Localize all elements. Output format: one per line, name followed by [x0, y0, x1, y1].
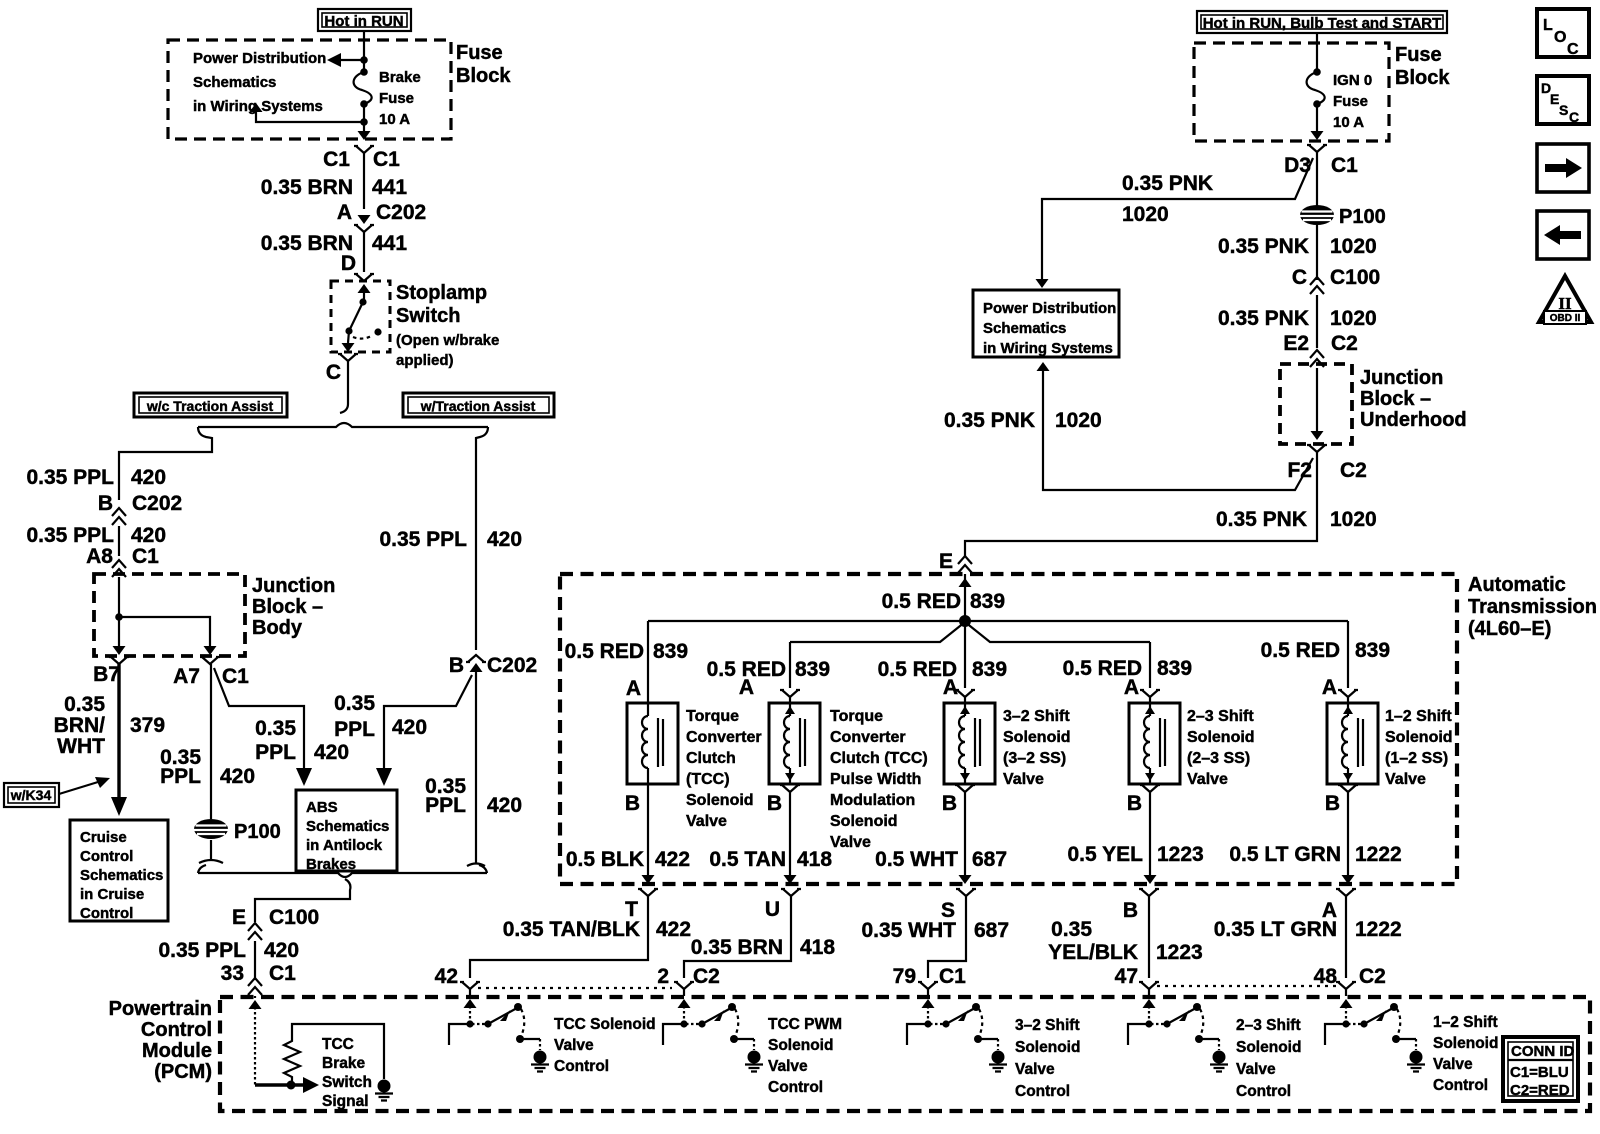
wire 379 BRN/WHT thick down to cruise control	[117, 664, 120, 800]
svg-text:Solenoid: Solenoid	[1015, 1039, 1080, 1056]
connector C1 C1	[354, 146, 374, 153]
pin A wire 1222	[1336, 889, 1356, 896]
svg-text:1222: 1222	[1355, 918, 1402, 941]
box w/K34	[4, 783, 59, 807]
svg-text:C: C	[1292, 266, 1307, 289]
svg-text:in Cruise: in Cruise	[80, 886, 144, 903]
junction block - underhood dashed box	[1280, 364, 1352, 444]
svg-text:PPL: PPL	[425, 794, 466, 817]
svg-text:Fuse: Fuse	[456, 42, 503, 64]
box w/c Traction Assist	[134, 393, 287, 417]
wire A7 down to P100	[210, 664, 212, 819]
connector E C100	[248, 923, 262, 940]
wire drop to 3-2 solenoid	[964, 621, 966, 688]
svg-text:3–2 Shift: 3–2 Shift	[1003, 708, 1070, 725]
svg-text:Solenoid: Solenoid	[768, 1037, 833, 1054]
node: junction dot to power distribution arrow	[360, 56, 368, 64]
connector P100 (right)	[1300, 205, 1334, 225]
svg-text:1020: 1020	[1330, 307, 1377, 330]
svg-text:0.5 TAN: 0.5 TAN	[709, 848, 786, 871]
svg-text:Pulse Width: Pulse Width	[830, 771, 921, 788]
wire diagonal to power distribution return	[1043, 371, 1313, 490]
svg-text:Schematics: Schematics	[193, 74, 276, 91]
svg-text:1–2 Shift: 1–2 Shift	[1433, 1014, 1498, 1031]
svg-text:0.5 RED: 0.5 RED	[1261, 639, 1340, 662]
svg-text:Valve: Valve	[1385, 771, 1426, 788]
svg-text:(3–2 SS): (3–2 SS)	[1003, 750, 1066, 767]
svg-text:42: 42	[435, 965, 458, 988]
svg-text:Solenoid: Solenoid	[1385, 729, 1453, 746]
wire drop to TCC PWM solenoid	[789, 642, 791, 688]
svg-text:420: 420	[314, 741, 349, 764]
solenoid TCC PWM	[769, 703, 820, 784]
svg-text:E: E	[939, 550, 953, 573]
svg-text:Block: Block	[456, 65, 511, 87]
svg-text:O: O	[1554, 29, 1566, 46]
svg-text:0.35: 0.35	[64, 693, 105, 716]
svg-text:420: 420	[220, 765, 255, 788]
wire drop to 1-2 solenoid	[1347, 621, 1349, 688]
traction option split bus	[198, 423, 488, 427]
svg-text:10 A: 10 A	[379, 111, 410, 128]
switch 3-2 shift solenoid valve control	[907, 999, 1007, 1072]
wire arrow to Power Distribution (left)	[340, 59, 364, 61]
box w/Traction Assist	[403, 393, 554, 417]
wire through junction block	[1316, 368, 1318, 431]
svg-text:839: 839	[970, 590, 1005, 613]
svg-text:B: B	[942, 792, 957, 815]
svg-text:C1: C1	[1331, 154, 1358, 177]
svg-text:A: A	[1124, 676, 1139, 699]
svg-text:Switch: Switch	[396, 305, 460, 327]
svg-text:Solenoid: Solenoid	[1236, 1039, 1301, 1056]
svg-text:C2=RED: C2=RED	[1510, 1082, 1570, 1099]
svg-text:C1=BLU: C1=BLU	[1510, 1064, 1569, 1081]
svg-text:422: 422	[655, 848, 690, 871]
svg-text:(4L60–E): (4L60–E)	[1468, 618, 1551, 640]
wire drop to 2-3 solenoid	[1149, 642, 1151, 688]
svg-text:C100: C100	[269, 906, 319, 929]
svg-text:C2: C2	[693, 965, 720, 988]
fuse block (left) dashed box	[168, 40, 451, 139]
svg-text:U: U	[765, 898, 780, 921]
svg-text:0.5 WHT: 0.5 WHT	[875, 848, 958, 871]
ground (resistor pull-up)	[375, 1080, 393, 1101]
wire 1020 PNK	[1316, 225, 1318, 280]
svg-text:0.5 YEL: 0.5 YEL	[1068, 843, 1144, 866]
svg-text:Module: Module	[142, 1040, 212, 1062]
svg-text:Power Distribution: Power Distribution	[983, 300, 1116, 317]
right traction branch: connector B C202	[466, 655, 486, 672]
wire branch to up arrow (power distribution return)	[256, 112, 364, 122]
svg-text:A: A	[739, 676, 754, 699]
svg-text:Block –: Block –	[1360, 388, 1431, 410]
switch 1-2 shift solenoid valve control	[1325, 999, 1425, 1072]
svg-text:0.35 PNK: 0.35 PNK	[1218, 235, 1309, 258]
connector D3 C1	[1307, 145, 1327, 152]
junction block - body dashed box	[94, 574, 245, 656]
wire 420 PPL to PCM pin 33	[254, 941, 256, 980]
svg-text:A: A	[626, 677, 641, 700]
svg-text:0.35 PNK: 0.35 PNK	[1218, 307, 1309, 330]
svg-text:A7: A7	[173, 665, 200, 688]
svg-text:0.5 RED: 0.5 RED	[565, 640, 644, 663]
svg-text:(TCC): (TCC)	[686, 771, 730, 788]
svg-text:Control: Control	[1015, 1083, 1070, 1100]
svg-text:Valve: Valve	[554, 1037, 594, 1054]
node inside junction block	[115, 613, 123, 621]
svg-text:0.35: 0.35	[1051, 918, 1092, 941]
svg-text:Fuse: Fuse	[1395, 44, 1442, 66]
svg-text:L: L	[1543, 17, 1553, 34]
svg-text:w/c Traction Assist: w/c Traction Assist	[146, 398, 274, 414]
icon forward arrow	[1537, 144, 1589, 192]
svg-text:C2: C2	[1331, 332, 1358, 355]
svg-text:2–3 Shift: 2–3 Shift	[1236, 1017, 1301, 1034]
box Cruise Control Schematics in Cruise Control	[70, 820, 168, 921]
svg-text:Control: Control	[1236, 1083, 1291, 1100]
svg-text:839: 839	[1157, 657, 1192, 680]
pin T wire 422	[638, 889, 658, 896]
wire F2 down and across to E	[965, 452, 1317, 556]
svg-text:B: B	[767, 792, 782, 815]
wire from C down to split	[340, 361, 348, 413]
solenoid 3-2 shift	[944, 703, 995, 784]
svg-text:B: B	[1127, 792, 1142, 815]
collector bus to C100	[198, 865, 206, 873]
svg-text:E2: E2	[1283, 332, 1309, 355]
svg-text:0.35 PPL: 0.35 PPL	[26, 524, 114, 547]
svg-text:687: 687	[972, 848, 1007, 871]
svg-text:Automatic: Automatic	[1468, 574, 1566, 596]
svg-text:Solenoid: Solenoid	[686, 792, 754, 809]
svg-text:839: 839	[972, 658, 1007, 681]
svg-text:in Wiring Systems: in Wiring Systems	[983, 340, 1113, 357]
svg-text:Valve: Valve	[1433, 1056, 1473, 1073]
svg-text:Control: Control	[80, 848, 133, 865]
svg-text:1020: 1020	[1330, 235, 1377, 258]
svg-text:C100: C100	[1330, 266, 1380, 289]
svg-text:Valve: Valve	[830, 834, 871, 851]
svg-text:0.35 TAN/BLK: 0.35 TAN/BLK	[503, 918, 640, 941]
svg-text:0.35 PPL: 0.35 PPL	[379, 528, 467, 551]
wire branch diagonal to ABS arrow 1	[214, 668, 304, 772]
svg-text:C1: C1	[373, 148, 400, 171]
pin B7	[109, 657, 129, 664]
svg-text:1223: 1223	[1157, 843, 1204, 866]
svg-text:C: C	[1569, 109, 1579, 125]
svg-text:PPL: PPL	[255, 741, 296, 764]
wire diagonal branch to PNK 1020 left run	[1042, 158, 1313, 279]
svg-text:Hot in RUN: Hot in RUN	[324, 13, 403, 30]
svg-text:Valve: Valve	[1003, 771, 1044, 788]
svg-text:(2–3 SS): (2–3 SS)	[1187, 750, 1250, 767]
svg-text:B: B	[98, 492, 113, 515]
fuse Brake Fuse 10 A	[360, 68, 368, 76]
svg-text:0.35 WHT: 0.35 WHT	[861, 919, 956, 942]
svg-text:Stoplamp: Stoplamp	[396, 282, 487, 304]
svg-text:687: 687	[974, 919, 1009, 942]
svg-text:B: B	[449, 654, 464, 677]
svg-text:0.35: 0.35	[334, 692, 375, 715]
svg-text:C: C	[1567, 41, 1579, 58]
svg-text:441: 441	[372, 176, 407, 199]
wire 441 BRN segment	[363, 153, 365, 209]
svg-text:Converter: Converter	[830, 729, 906, 746]
svg-text:Cruise: Cruise	[80, 829, 127, 846]
svg-text:47: 47	[1115, 965, 1138, 988]
svg-text:P100: P100	[1339, 206, 1386, 228]
CONN ID legend box	[1503, 1037, 1578, 1101]
svg-text:in Antilock: in Antilock	[306, 837, 383, 854]
svg-text:Junction: Junction	[1360, 367, 1443, 389]
svg-text:Valve: Valve	[768, 1058, 808, 1075]
wire feeder bus line upper	[648, 620, 1348, 622]
svg-text:1222: 1222	[1355, 843, 1402, 866]
svg-text:0.35 PPL: 0.35 PPL	[26, 466, 114, 489]
svg-text:79: 79	[893, 965, 916, 988]
svg-text:F2: F2	[1287, 459, 1312, 482]
svg-text:0.35 BRN: 0.35 BRN	[261, 232, 353, 255]
wire branch to A7	[119, 617, 210, 646]
svg-text:BRN/: BRN/	[54, 714, 105, 737]
svg-text:Valve: Valve	[1236, 1061, 1276, 1078]
svg-text:Control: Control	[554, 1058, 609, 1075]
svg-text:B: B	[625, 792, 640, 815]
svg-text:Clutch (TCC): Clutch (TCC)	[830, 750, 928, 767]
wire branch diagonal from C202 to ABS arrow 2	[384, 675, 472, 772]
svg-text:C202: C202	[132, 492, 182, 515]
svg-text:P100: P100	[234, 821, 281, 843]
svg-text:PPL: PPL	[160, 765, 201, 788]
banner Hot in RUN	[318, 9, 411, 31]
svg-text:C2: C2	[1359, 965, 1386, 988]
svg-text:D: D	[341, 252, 356, 275]
svg-text:Power Distribution: Power Distribution	[193, 50, 326, 67]
svg-text:Torque: Torque	[686, 708, 739, 725]
svg-text:Torque: Torque	[830, 708, 883, 725]
svg-text:Solenoid: Solenoid	[830, 813, 898, 830]
svg-text:0.35 BRN: 0.35 BRN	[691, 936, 783, 959]
svg-text:E: E	[232, 906, 246, 929]
svg-text:TCC: TCC	[322, 1036, 354, 1053]
box ABS Schematics in Antilock Brakes	[296, 790, 397, 871]
pin A7 C1	[200, 657, 220, 664]
svg-text:Solenoid: Solenoid	[1187, 729, 1255, 746]
squiggle from bus down to E C100	[255, 879, 350, 922]
svg-text:Fuse: Fuse	[379, 90, 414, 107]
svg-text:422: 422	[656, 918, 691, 941]
svg-text:B7: B7	[93, 663, 120, 686]
TCC brake switch signal circuit	[249, 1000, 262, 1009]
icon DESC	[1537, 76, 1589, 125]
svg-text:Schematics: Schematics	[983, 320, 1066, 337]
resistor TCC brake switch	[284, 1024, 384, 1081]
svg-text:Switch: Switch	[322, 1074, 372, 1091]
svg-text:w/Traction Assist: w/Traction Assist	[420, 398, 536, 414]
pin C below stoplamp switch	[338, 354, 358, 361]
svg-text:applied): applied)	[396, 352, 454, 369]
svg-text:B: B	[1325, 792, 1340, 815]
svg-text:Valve: Valve	[686, 813, 727, 830]
svg-text:0.5 LT GRN: 0.5 LT GRN	[1229, 843, 1341, 866]
svg-text:Valve: Valve	[1187, 771, 1228, 788]
wire feeder bus line lower with diagonals	[790, 622, 1150, 642]
svg-text:OBD II: OBD II	[1550, 313, 1581, 324]
svg-text:Control: Control	[80, 905, 133, 922]
wire drop to TCC solenoid	[647, 621, 649, 703]
wire below fuse	[363, 104, 365, 122]
svg-text:Transmission: Transmission	[1468, 596, 1597, 618]
svg-text:420: 420	[264, 939, 299, 962]
svg-text:Powertrain: Powertrain	[109, 998, 212, 1020]
svg-text:B: B	[1123, 899, 1138, 922]
solenoid 1-2 shift	[1327, 703, 1378, 784]
pin 33 C1	[248, 978, 262, 995]
wire from banner into fuse block	[363, 31, 365, 69]
wire from C202 down to bus	[475, 672, 477, 863]
wire from banner into fuse	[1316, 33, 1318, 72]
svg-text:420: 420	[131, 466, 166, 489]
fuse block (right) dashed box	[1194, 43, 1389, 141]
pin B wire 1223	[1139, 889, 1159, 896]
svg-text:A8: A8	[86, 545, 113, 568]
svg-text:Block: Block	[1395, 67, 1450, 89]
switch 2-3 shift solenoid valve control	[1128, 999, 1228, 1072]
svg-text:3–2 Shift: 3–2 Shift	[1015, 1017, 1080, 1034]
wire 1020 PNK segment 2	[1316, 295, 1318, 348]
svg-text:IGN 0: IGN 0	[1333, 72, 1372, 89]
pin U wire 418	[781, 889, 801, 896]
solenoid TCC (Torque Converter Clutch)	[627, 703, 678, 784]
svg-text:Body: Body	[252, 617, 303, 639]
svg-text:YEL/BLK: YEL/BLK	[1048, 941, 1138, 964]
svg-text:48: 48	[1314, 965, 1338, 988]
svg-text:0.35: 0.35	[255, 717, 296, 740]
node: red feed junction dot	[959, 615, 971, 627]
svg-text:1020: 1020	[1055, 409, 1102, 432]
svg-text:418: 418	[797, 848, 832, 871]
svg-text:TCC PWM: TCC PWM	[768, 1016, 842, 1033]
svg-text:Block –: Block –	[252, 596, 323, 618]
svg-text:C2: C2	[1340, 459, 1367, 482]
svg-text:839: 839	[653, 640, 688, 663]
svg-text:2: 2	[657, 965, 669, 988]
pin S wire 687	[956, 889, 976, 896]
svg-text:Hot in RUN, Bulb Test and STAR: Hot in RUN, Bulb Test and START	[1203, 15, 1442, 32]
svg-text:Valve: Valve	[1015, 1061, 1055, 1078]
svg-text:418: 418	[800, 936, 835, 959]
svg-text:ABS: ABS	[306, 799, 338, 816]
svg-text:C: C	[326, 361, 341, 384]
svg-text:2–3 Shift: 2–3 Shift	[1187, 708, 1254, 725]
svg-text:420: 420	[131, 524, 166, 547]
svg-text:Modulation: Modulation	[830, 792, 915, 809]
svg-text:420: 420	[487, 528, 522, 551]
wire out of fuse block	[1316, 104, 1318, 131]
svg-text:1223: 1223	[1156, 941, 1203, 964]
svg-text:C1: C1	[939, 965, 966, 988]
svg-text:0.35 PPL: 0.35 PPL	[158, 939, 246, 962]
wire out of fuse block bottom	[363, 122, 365, 131]
svg-text:839: 839	[795, 658, 830, 681]
svg-text:Schematics: Schematics	[80, 867, 163, 884]
svg-text:Solenoid: Solenoid	[1433, 1035, 1498, 1052]
svg-text:Brakes: Brakes	[306, 856, 356, 873]
switch TCC solenoid valve control	[449, 999, 549, 1072]
svg-text:Control: Control	[141, 1019, 212, 1041]
connector F2 C2	[1307, 445, 1327, 452]
svg-text:Underhood: Underhood	[1360, 409, 1467, 431]
svg-text:0.35 LT GRN: 0.35 LT GRN	[1214, 918, 1337, 941]
svg-text:(PCM): (PCM)	[154, 1061, 212, 1083]
banner Hot in RUN, Bulb Test and START	[1197, 11, 1447, 33]
svg-text:0.35 PNK: 0.35 PNK	[1122, 172, 1213, 195]
svg-text:0.5 BLK: 0.5 BLK	[566, 848, 644, 871]
svg-text:Control: Control	[1433, 1077, 1488, 1094]
svg-text:A: A	[1322, 676, 1337, 699]
svg-text:C1: C1	[222, 665, 249, 688]
fuse IGN 0 Fuse 10 A	[1313, 68, 1321, 76]
svg-text:839: 839	[1355, 639, 1390, 662]
svg-text:w/K34: w/K34	[10, 787, 52, 803]
svg-text:1–2 Shift: 1–2 Shift	[1385, 708, 1452, 725]
svg-text:0.35 PNK: 0.35 PNK	[944, 409, 1035, 432]
svg-text:Clutch: Clutch	[686, 750, 736, 767]
connector grouping dotted lines	[478, 987, 672, 989]
svg-text:C1: C1	[323, 148, 350, 171]
svg-text:0.35 BRN: 0.35 BRN	[261, 176, 353, 199]
svg-text:C202: C202	[487, 654, 537, 677]
svg-text:441: 441	[372, 232, 407, 255]
wire down to B7	[118, 617, 120, 646]
icon OBD II triangle	[1539, 276, 1591, 324]
svg-text:379: 379	[130, 714, 165, 737]
svg-text:(1–2 SS): (1–2 SS)	[1385, 750, 1448, 767]
wire 441 BRN segment 2	[363, 232, 365, 264]
icon LOC	[1537, 9, 1589, 58]
svg-text:A: A	[943, 676, 958, 699]
svg-text:S: S	[1559, 102, 1568, 118]
wire main down to P100	[1316, 152, 1318, 219]
icon back arrow	[1537, 211, 1589, 259]
svg-text:CONN ID: CONN ID	[1511, 1043, 1575, 1060]
svg-text:A: A	[337, 201, 352, 224]
svg-text:Schematics: Schematics	[306, 818, 389, 835]
box Power Distribution Schematics in Wiring Systems	[973, 290, 1119, 357]
svg-text:33: 33	[221, 962, 244, 985]
svg-text:(Open w/brake: (Open w/brake	[396, 332, 499, 349]
svg-text:0.35 PNK: 0.35 PNK	[1216, 508, 1307, 531]
svg-text:Converter: Converter	[686, 729, 762, 746]
svg-text:1020: 1020	[1122, 203, 1169, 226]
svg-text:Brake: Brake	[322, 1055, 365, 1072]
arrow from w/K34 to wire	[59, 782, 98, 794]
svg-text:Fuse: Fuse	[1333, 93, 1368, 110]
svg-text:Solenoid: Solenoid	[1003, 729, 1071, 746]
svg-text:WHT: WHT	[57, 735, 105, 758]
svg-text:TCC Solenoid: TCC Solenoid	[554, 1016, 656, 1033]
stoplamp switch dashed box	[331, 281, 390, 352]
switch TCC PWM solenoid valve control	[663, 999, 763, 1072]
svg-text:Junction: Junction	[252, 575, 335, 597]
svg-text:10 A: 10 A	[1333, 114, 1364, 131]
svg-text:420: 420	[392, 716, 427, 739]
connector P100 (left)	[194, 819, 228, 839]
svg-text:Brake: Brake	[379, 69, 421, 86]
solenoid 2-3 shift	[1129, 703, 1180, 784]
svg-text:420: 420	[487, 794, 522, 817]
